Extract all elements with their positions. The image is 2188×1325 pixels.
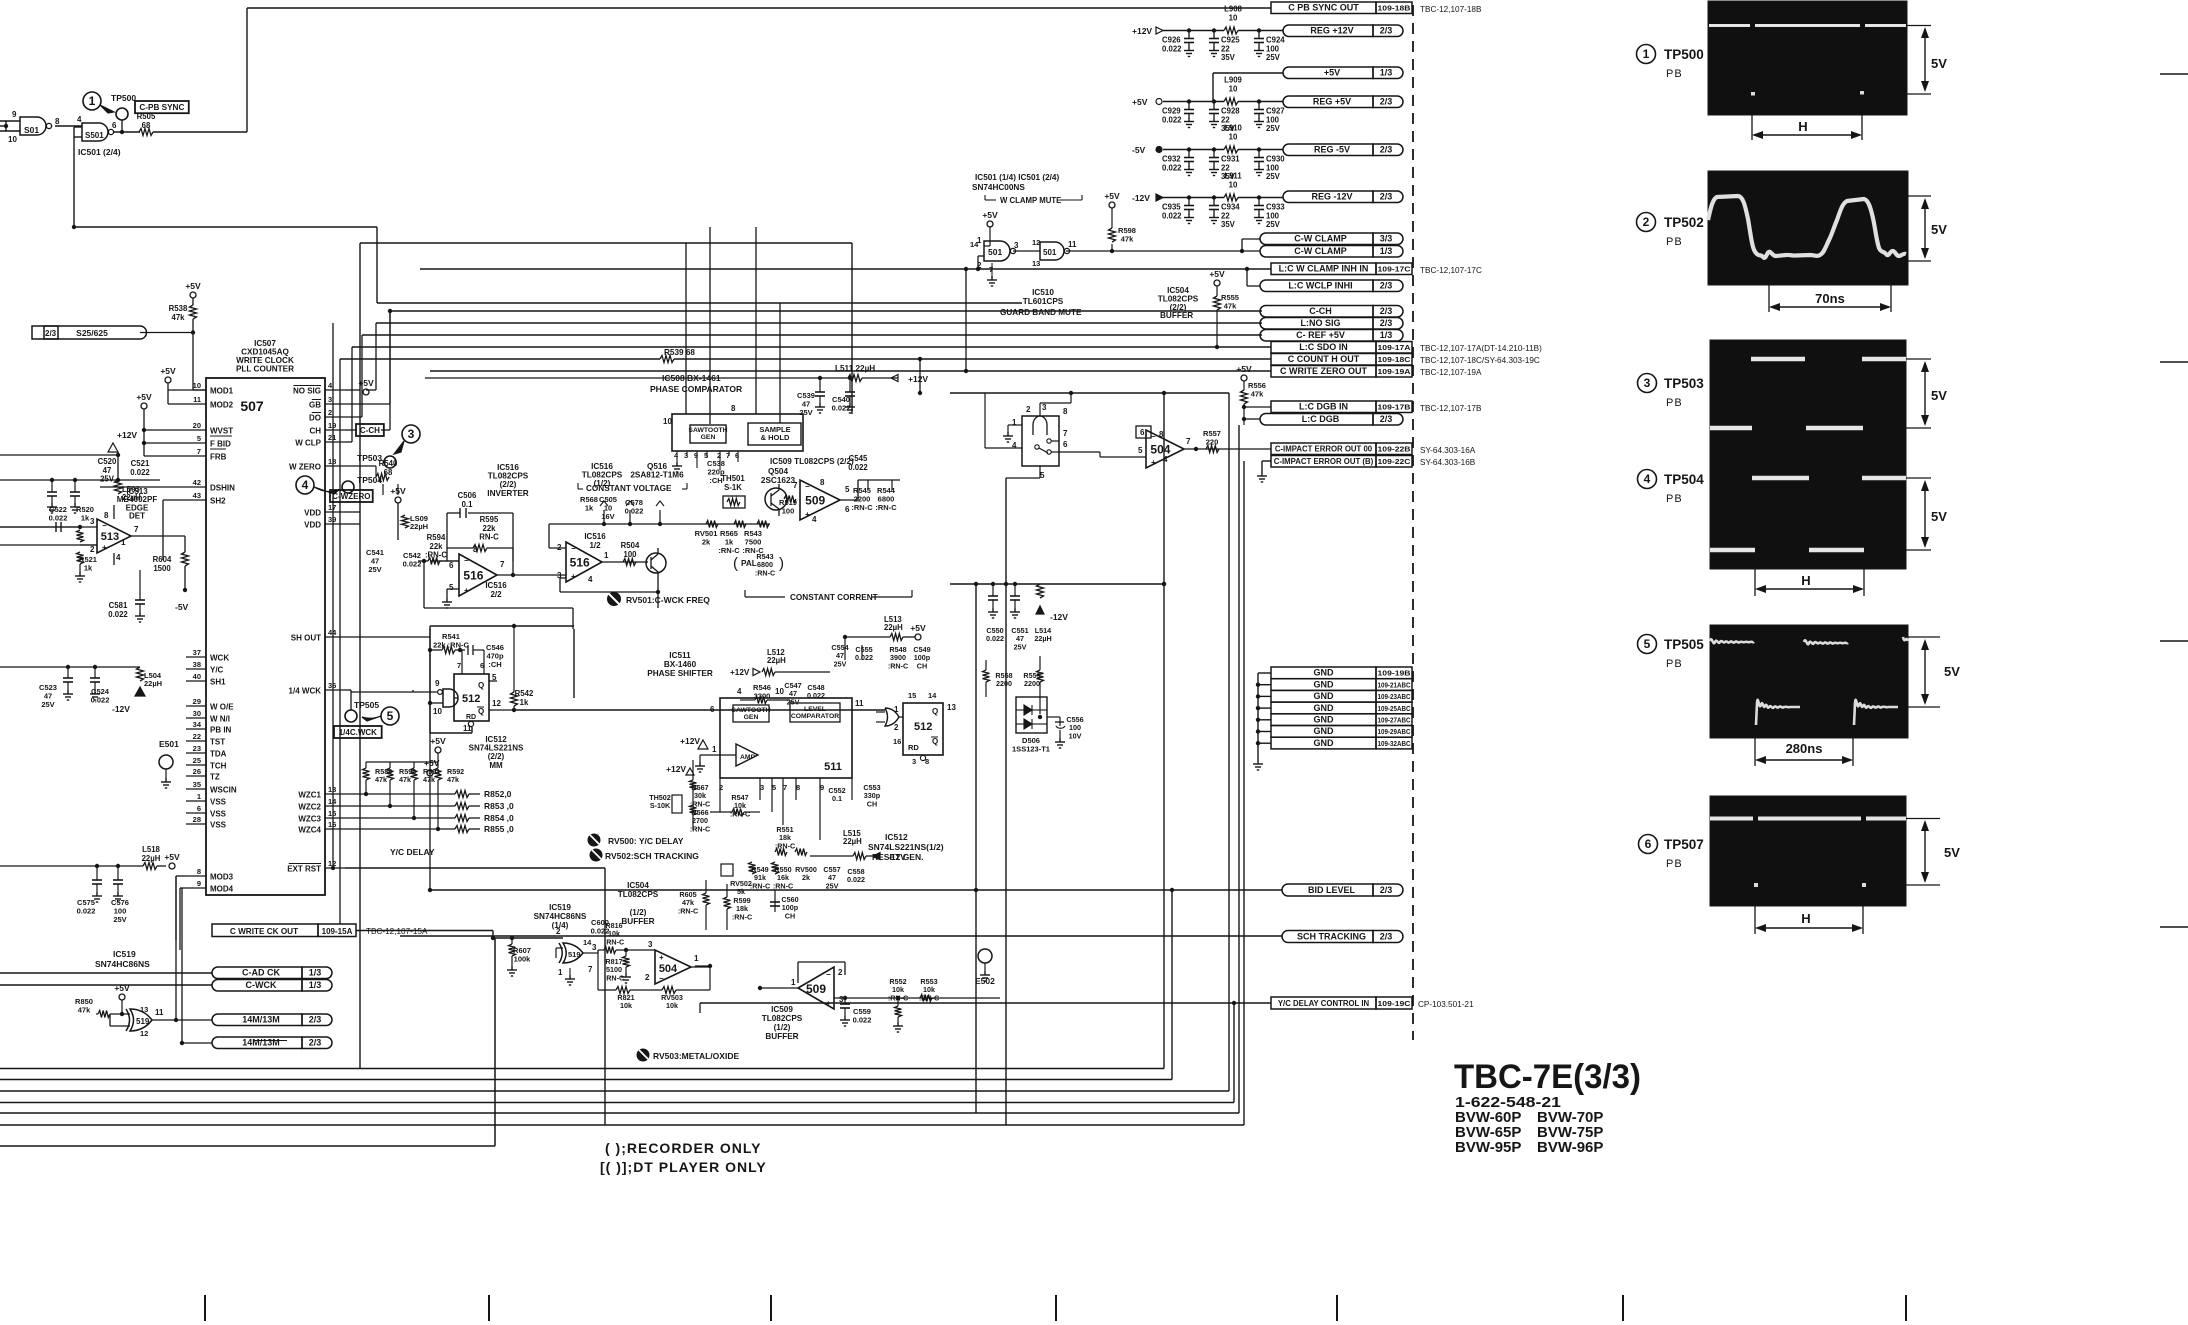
resistors R545 2200 R544 6800 [851, 480, 900, 512]
capacitor C559 0.022 [840, 996, 871, 1026]
svg-text:CONSTANT VOLTAGE: CONSTANT VOLTAGE [586, 484, 672, 493]
capacitors C523 C524 / inductor L504 [0, 665, 162, 714]
right edge fold marks [2160, 74, 2188, 927]
svg-text:WSCIN: WSCIN [210, 786, 237, 795]
svg-text:5: 5 [1040, 471, 1045, 480]
svg-text:509: 509 [806, 982, 826, 996]
net REG +5V [1283, 96, 1403, 108]
svg-text:2/3: 2/3 [1380, 281, 1393, 291]
svg-text:1: 1 [694, 954, 699, 963]
svg-text:14M/13M: 14M/13M [242, 1015, 280, 1025]
svg-text:26: 26 [193, 767, 201, 776]
svg-text:0.022: 0.022 [847, 875, 865, 884]
svg-text:E501: E501 [159, 739, 179, 749]
svg-text:SY-64.303-16A: SY-64.303-16A [1420, 446, 1476, 455]
svg-text:+5V: +5V [358, 378, 374, 388]
svg-text::RN-C: :RN-C [875, 503, 897, 512]
svg-text:25V: 25V [100, 475, 115, 484]
svg-text:C924: C924 [1266, 36, 1285, 45]
svg-text:TL082CPS: TL082CPS [762, 1014, 803, 1023]
svg-text:2: 2 [838, 968, 843, 977]
capacitors C550 C551 / inductor L514 [986, 582, 1068, 652]
svg-text:5V: 5V [1931, 388, 1947, 403]
svg-text:TBC-12,107-18B: TBC-12,107-18B [1420, 5, 1482, 14]
svg-text:C-IMPACT ERROR OUT (B): C-IMPACT ERROR OUT (B) [1274, 457, 1374, 466]
svg-text:10V: 10V [1069, 731, 1082, 740]
inductor L911 / capacitors C935 C934 C933 (-12V rail) [1132, 172, 1285, 230]
svg-text:1k: 1k [520, 698, 529, 707]
svg-text:109-22C: 109-22C [1378, 457, 1412, 466]
wire DO riser [345, 335, 362, 417]
net L:NO SIG [1260, 318, 1403, 330]
svg-text:70ns: 70ns [1815, 291, 1845, 306]
resistor R540 68 [345, 459, 398, 481]
svg-text:R604: R604 [153, 555, 172, 564]
svg-text:C929: C929 [1162, 107, 1181, 116]
svg-text:1: 1 [197, 792, 201, 801]
svg-text:2: 2 [645, 973, 650, 982]
svg-text:WZC1: WZC1 [298, 791, 321, 800]
svg-text:IC519: IC519 [549, 903, 571, 912]
svg-text:R538: R538 [169, 304, 188, 313]
svg-text:1/4 WCK: 1/4 WCK [289, 687, 322, 696]
svg-text:2/3: 2/3 [1380, 885, 1393, 895]
svg-text:19: 19 [328, 421, 336, 430]
svg-text:29: 29 [193, 697, 201, 706]
net C-IMPACT ERROR OUT (B) [1271, 456, 1476, 468]
wire riser x1164 [1162, 393, 1166, 1069]
svg-text:-12V: -12V [112, 704, 130, 714]
svg-text:1/3: 1/3 [309, 980, 322, 990]
svg-text:22µH: 22µH [142, 854, 161, 863]
label IC519 SN74HC86NS (1/4) [534, 903, 587, 930]
svg-text:18: 18 [328, 457, 336, 466]
svg-text:WZC4: WZC4 [298, 826, 321, 835]
net C-WCK [212, 980, 332, 992]
svg-text:25V: 25V [799, 408, 812, 417]
oscillogram TP507 [1710, 796, 1906, 906]
svg-text:GND: GND [1314, 668, 1335, 678]
svg-text:0.022: 0.022 [1162, 115, 1182, 124]
svg-text:516: 516 [463, 568, 483, 582]
testpoint TP500 [83, 92, 136, 134]
svg-text:22: 22 [1221, 211, 1230, 220]
svg-text:2SC1623: 2SC1623 [761, 476, 796, 485]
wire SH OUT [345, 629, 430, 890]
svg-text:0.1: 0.1 [462, 500, 474, 509]
svg-text:5k: 5k [737, 887, 745, 896]
wire SCH TRACKING row [400, 935, 1282, 937]
testpoint TP503 [357, 425, 420, 468]
capacitors row y480 [0, 478, 160, 513]
svg-text:VDD: VDD [304, 521, 321, 530]
svg-text:47k: 47k [423, 775, 435, 784]
svg-text:TP507: TP507 [1664, 837, 1704, 852]
resistors R558 R559 2200 [983, 656, 1044, 714]
wire impact error (B) stub [1257, 461, 1271, 482]
label IC510 TL601CPS GUARD BAND MUTE [1000, 288, 1082, 317]
svg-text:IC504: IC504 [627, 881, 649, 890]
svg-text:S501: S501 [85, 131, 104, 140]
svg-text:TBC-12,107-18C/SY-64.303-19C: TBC-12,107-18C/SY-64.303-19C [1420, 356, 1540, 365]
net C-CH [1260, 306, 1403, 318]
wire 513 +input [0, 544, 97, 546]
svg-text::RN-C: :RN-C [718, 546, 740, 555]
svg-text:5: 5 [845, 485, 850, 494]
inductor L515 [810, 829, 906, 862]
svg-text:2/3: 2/3 [1380, 26, 1393, 36]
dimension 70ns scope2 [1769, 285, 1891, 312]
net L:C DGB [1260, 414, 1403, 426]
power +5V xor [114, 983, 130, 1016]
svg-text:C926: C926 [1162, 36, 1181, 45]
IC U507 CXD1045AQ box [206, 339, 325, 895]
resistor R594 22k :RN-C [418, 533, 459, 565]
svg-text:TBC-7E(3/3): TBC-7E(3/3) [1454, 1058, 1641, 1096]
svg-text:16V: 16V [601, 512, 614, 521]
svg-text:100: 100 [1266, 163, 1280, 172]
label IC519 SN74HC86NS [95, 949, 150, 969]
svg-text:36: 36 [328, 681, 336, 690]
svg-text:+5V: +5V [136, 392, 152, 402]
svg-text:8: 8 [1063, 407, 1068, 416]
svg-text:1500: 1500 [153, 564, 171, 573]
svg-text:L911: L911 [1224, 172, 1242, 181]
svg-text:109-18B: 109-18B [1378, 4, 1412, 13]
svg-text:7: 7 [500, 560, 505, 569]
svg-text:SAWTOOTH: SAWTOOTH [731, 707, 770, 714]
wire left edge y403 [0, 390, 144, 403]
svg-text:15: 15 [328, 809, 336, 818]
svg-text:43: 43 [193, 491, 201, 500]
svg-text:REG -12V: REG -12V [1311, 192, 1352, 202]
svg-text:BVW-95P: BVW-95P [1455, 1139, 1521, 1156]
wire NO SIG riser [345, 323, 376, 395]
label TP507 [1639, 835, 1704, 871]
svg-text:10k: 10k [620, 1001, 632, 1010]
label IC509 TL082CPS (2/2) [770, 457, 854, 466]
resistor R504 100 [621, 541, 640, 566]
wire EXT RST long [345, 867, 605, 869]
wire CH long [345, 347, 352, 442]
svg-text:MOD4: MOD4 [210, 885, 234, 894]
svg-text::RN-C: :RN-C [750, 881, 770, 890]
transistor Q516 [646, 548, 666, 580]
svg-text:22µH: 22µH [843, 837, 862, 846]
svg-text:30: 30 [193, 709, 201, 718]
svg-text:SH OUT: SH OUT [291, 634, 321, 643]
svg-text:PLL COUNTER: PLL COUNTER [236, 365, 294, 374]
svg-text:13: 13 [947, 703, 956, 712]
svg-text:4: 4 [737, 687, 742, 696]
svg-text:2/2: 2/2 [490, 590, 502, 599]
svg-text:47k: 47k [375, 775, 387, 784]
svg-text:2: 2 [1643, 215, 1650, 229]
svg-text:8: 8 [197, 867, 201, 876]
svg-text:25V: 25V [1266, 124, 1281, 133]
svg-text:109-27ABC: 109-27ABC [1378, 716, 1411, 725]
svg-text:RV501:C-WCK FREQ: RV501:C-WCK FREQ [626, 595, 710, 605]
svg-text:C521: C521 [131, 459, 150, 468]
svg-text:TBC-12,107-17C: TBC-12,107-17C [1420, 266, 1482, 275]
title TBC-7E(3/3) [1454, 1058, 1641, 1156]
svg-text:WZC3: WZC3 [298, 815, 321, 824]
svg-text:C545: C545 [849, 454, 868, 463]
svg-text:0.022: 0.022 [986, 634, 1004, 643]
svg-text:2: 2 [556, 927, 561, 936]
svg-text:0.022: 0.022 [49, 514, 68, 523]
svg-text:WCK: WCK [210, 654, 229, 663]
pot RV501 C-WCK FREQ note [607, 592, 710, 606]
wire riser x605 EXT RST [604, 868, 606, 1125]
power +5V LS09 [390, 486, 428, 540]
svg-text:109-22B: 109-22B [1378, 445, 1412, 454]
svg-text:109-21ABC: 109-21ABC [1378, 680, 1411, 689]
capacitor C581 0.022 [108, 570, 145, 622]
svg-text:−: − [826, 970, 831, 979]
svg-text:512: 512 [914, 721, 932, 733]
svg-text:TBC-12,107-17A(DT-14.210-11B): TBC-12,107-17A(DT-14.210-11B) [1420, 344, 1542, 353]
svg-text:IC510: IC510 [1032, 288, 1054, 297]
svg-text:PB: PB [1666, 397, 1683, 409]
net C PB SYNC OUT [1271, 2, 1482, 14]
svg-text:7: 7 [457, 661, 461, 670]
wire switch pins [985, 393, 1071, 478]
svg-text:RV503:METAL/OXIDE: RV503:METAL/OXIDE [653, 1051, 739, 1061]
svg-text:E502: E502 [975, 976, 995, 986]
svg-text:10: 10 [1229, 13, 1238, 22]
svg-text:Q: Q [478, 681, 484, 690]
dimension H scope6 [1755, 906, 1863, 934]
svg-text:Y/C DELAY CONTROL IN: Y/C DELAY CONTROL IN [1278, 999, 1370, 1008]
svg-text:-12V: -12V [888, 852, 906, 862]
svg-text:6: 6 [1645, 837, 1652, 851]
svg-text:2/3: 2/3 [45, 329, 57, 338]
svg-text:−: − [659, 974, 664, 983]
svg-text:W CLAMP MUTE: W CLAMP MUTE [1000, 196, 1061, 205]
label IC501 SN74HC00NS [972, 173, 1059, 192]
svg-text:6: 6 [449, 561, 454, 570]
svg-text:-5V: -5V [1132, 145, 1146, 155]
svg-text:9: 9 [435, 679, 440, 688]
wire riser x1239 [1238, 425, 1240, 1113]
svg-text:+5V: +5V [1104, 191, 1120, 201]
svg-text:7: 7 [588, 965, 593, 974]
svg-text:IC511: IC511 [669, 651, 691, 660]
svg-text:CONSTANT CORRENT: CONSTANT CORRENT [790, 593, 878, 602]
svg-text:BID LEVEL: BID LEVEL [1308, 885, 1356, 895]
wire riser x573 to IC511 [573, 629, 575, 698]
svg-text:IC516: IC516 [584, 532, 606, 541]
label TP500 [1637, 45, 1704, 81]
net S25/625 [32, 326, 147, 339]
svg-text:25V: 25V [787, 697, 800, 706]
capacitor C538 220p :CH [707, 459, 725, 485]
svg-text:2/3: 2/3 [1380, 192, 1393, 202]
node C-WZERO [330, 490, 373, 502]
op-amp IC516 1/2 [549, 524, 648, 584]
net GND 109-21ABC [1271, 679, 1412, 691]
svg-text:519: 519 [136, 1017, 150, 1026]
svg-text::RN-C: :RN-C [755, 568, 775, 577]
svg-text:47k: 47k [399, 775, 411, 784]
svg-text:10k: 10k [666, 1001, 678, 1010]
svg-text::RN-C: :RN-C [888, 661, 908, 670]
svg-text:37: 37 [193, 648, 201, 657]
svg-text:C930: C930 [1266, 155, 1285, 164]
svg-text:25V: 25V [1266, 172, 1281, 181]
svg-text:10: 10 [1229, 132, 1238, 141]
svg-text:L910: L910 [1224, 124, 1242, 133]
svg-text:+5V: +5V [185, 281, 201, 291]
svg-text:TP500: TP500 [111, 93, 136, 103]
label TP504 [1638, 470, 1705, 506]
svg-text:TCH: TCH [210, 762, 227, 771]
svg-text:16: 16 [893, 737, 901, 746]
resistors R821 10k RV503 10k [598, 950, 712, 1010]
svg-text:RV500: Y/C DELAY: RV500: Y/C DELAY [608, 836, 684, 846]
inductor L511 [425, 364, 928, 384]
svg-text:PHASE COMPARATOR: PHASE COMPARATOR [650, 384, 742, 394]
svg-text:25V: 25V [826, 881, 839, 890]
svg-text:109-17C: 109-17C [1378, 265, 1412, 274]
capacitor C545 0.022 [848, 454, 868, 472]
svg-text:C WRITE ZERO OUT: C WRITE ZERO OUT [1280, 366, 1367, 376]
dimension 5V scope5 [1908, 637, 1960, 707]
svg-text:C-AD CK: C-AD CK [242, 968, 280, 978]
wire s25 to r538 [140, 330, 195, 334]
svg-text:11: 11 [193, 395, 201, 404]
resistor R547 10k [710, 793, 760, 818]
svg-text:WVST: WVST [210, 427, 233, 436]
svg-text:GND: GND [1314, 715, 1335, 725]
resistor R519 100 [779, 496, 797, 516]
svg-text:+5V: +5V [1132, 97, 1148, 107]
svg-text:7: 7 [783, 783, 787, 792]
svg-text:R852,0: R852,0 [484, 789, 512, 799]
svg-text:5: 5 [772, 783, 776, 792]
svg-text:CH: CH [309, 427, 321, 436]
svg-text:1: 1 [1012, 418, 1017, 427]
net GND 109-23ABC [1271, 690, 1412, 702]
oscillogram TP500 [1708, 1, 1907, 115]
svg-text:+12V: +12V [680, 736, 700, 746]
flip-flop 512B [893, 691, 956, 766]
node C-CH [356, 424, 384, 436]
capacitor C522 symbol [0, 522, 84, 542]
wire C WRITE CK OUT net [356, 931, 563, 941]
svg-text::RN-C: :RN-C [773, 881, 793, 890]
svg-text:VSS: VSS [210, 798, 227, 807]
svg-text:TBC-12,107-17B: TBC-12,107-17B [1420, 404, 1482, 413]
svg-text:47k: 47k [447, 775, 459, 784]
svg-text:516: 516 [570, 555, 590, 569]
capacitors C539 C540 [797, 376, 855, 417]
power +5V yc [430, 736, 446, 762]
svg-text:BVW-96P: BVW-96P [1537, 1139, 1603, 1156]
label CONSTANT CORRENT [745, 590, 912, 602]
svg-text:W O/E: W O/E [210, 703, 234, 712]
svg-text:519: 519 [568, 950, 581, 959]
resistors R549 R550 RV500 caps C557 C558 [749, 862, 866, 890]
svg-text:0.022: 0.022 [1162, 44, 1182, 53]
svg-text:10: 10 [775, 687, 784, 696]
svg-text:0.022: 0.022 [1162, 163, 1182, 172]
svg-text:C-W CLAMP: C-W CLAMP [1294, 246, 1347, 256]
wires IC511 bottom pins [720, 778, 820, 840]
IC U508 BX-1461 box [663, 404, 803, 472]
svg-text:R853 ,0: R853 ,0 [484, 801, 514, 811]
wire riser x1234 [1232, 1001, 1236, 1103]
svg-text:TP502: TP502 [1664, 215, 1704, 230]
net Y/C DELAY CONTROL IN [1271, 997, 1474, 1009]
svg-text:IC516: IC516 [485, 581, 507, 590]
svg-text:1: 1 [121, 538, 126, 547]
svg-text:100: 100 [782, 507, 795, 516]
svg-text:5: 5 [1644, 637, 1651, 651]
resistor R546 3300 [740, 683, 790, 704]
svg-text:22k: 22k [429, 542, 443, 551]
svg-text:C935: C935 [1162, 203, 1181, 212]
svg-text:BUFFER: BUFFER [621, 917, 654, 926]
svg-text:-12V: -12V [1132, 193, 1150, 203]
svg-text:0.022: 0.022 [625, 507, 644, 516]
svg-text:TZ: TZ [210, 773, 220, 782]
svg-text:0.022: 0.022 [853, 1016, 872, 1025]
svg-text:VDD: VDD [304, 509, 321, 518]
svg-text:3: 3 [592, 943, 597, 952]
svg-text:TL601CPS: TL601CPS [1023, 297, 1064, 306]
svg-text:4: 4 [116, 553, 121, 562]
svg-text:22µH: 22µH [767, 656, 786, 665]
svg-text:6: 6 [845, 505, 850, 514]
svg-text:1: 1 [791, 978, 796, 987]
svg-text:IC509: IC509 [771, 1005, 793, 1014]
svg-text:25V: 25V [834, 659, 847, 668]
svg-text:NO SIG: NO SIG [293, 387, 321, 396]
svg-text:6: 6 [1063, 440, 1068, 449]
wire MOD3/MOD4 feeds [176, 876, 186, 950]
power +12V amp [680, 736, 708, 749]
svg-text:C-WCK: C-WCK [246, 980, 277, 990]
svg-text:C-PB SYNC: C-PB SYNC [139, 103, 184, 112]
svg-text:12: 12 [1032, 238, 1040, 247]
wire W CLP to C-CH row [345, 309, 392, 430]
wire yc delay riser [699, 1003, 701, 1013]
svg-text:2/3: 2/3 [1380, 932, 1393, 942]
svg-text:1k: 1k [585, 504, 594, 513]
svg-text:8: 8 [104, 511, 109, 520]
svg-text:REG +12V: REG +12V [1310, 26, 1353, 36]
svg-text:L:C WCLP INHI: L:C WCLP INHI [1288, 281, 1352, 291]
wire GB riser [345, 311, 390, 404]
svg-text:Q: Q [478, 707, 484, 716]
svg-text:+12V: +12V [1132, 26, 1152, 36]
svg-text:TST: TST [210, 738, 225, 747]
svg-text:SH1: SH1 [210, 678, 226, 687]
svg-text::CH: :CH [709, 476, 722, 485]
wire vert x852 [851, 243, 853, 414]
svg-text:2/3: 2/3 [1380, 145, 1393, 155]
svg-text:PB: PB [1666, 68, 1683, 80]
svg-text:(: ( [733, 555, 738, 572]
svg-text:6: 6 [112, 121, 117, 130]
pot RV502 5k [721, 864, 752, 896]
resistor R539 68 / wire C COUNT H OUT row [340, 348, 1271, 363]
svg-text:16: 16 [328, 820, 336, 829]
label (PAL R543 6800 :RN-C) [733, 552, 784, 577]
svg-text:FRB: FRB [210, 453, 227, 462]
